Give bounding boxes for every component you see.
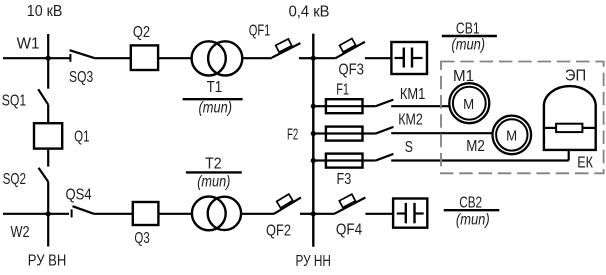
label CB1 fraction line (442, 35, 497, 37)
svg-text:(mun): (mun) (451, 37, 485, 54)
svg-text:W1: W1 (17, 35, 40, 52)
svg-text:T1: T1 (207, 79, 223, 96)
node bus F2 junction (311, 131, 316, 136)
wire SQ1 to Q1 (47, 105, 49, 123)
wire SQ3 to Q2 (95, 57, 131, 59)
svg-text:QS4: QS4 (66, 187, 92, 204)
circuit breaker QF2 (274, 197, 301, 213)
svg-text:QF1: QF1 (249, 22, 271, 39)
svg-text:F1: F1 (336, 81, 349, 98)
svg-text:Q2: Q2 (133, 24, 150, 41)
disconnector SQ1 blade (38, 89, 48, 105)
circuit breaker QF3 (313, 57, 335, 59)
wire T1 to QF1 (242, 57, 272, 59)
wire QF3 to capacitor (365, 57, 392, 59)
wire S to EK (391, 159, 569, 161)
wire W1 cable-in (3, 57, 48, 59)
svg-text:SQ2: SQ2 (3, 171, 26, 188)
svg-text:Q3: Q3 (134, 230, 149, 247)
breaker Q1 (34, 123, 62, 148)
heater EP enclosure (544, 86, 596, 150)
svg-text:ЭП: ЭП (565, 68, 586, 85)
fuse F1 (326, 99, 363, 113)
switch S blade (375, 154, 393, 161)
wire Q3 to T2 (158, 213, 192, 215)
wire QF2 to bus (300, 213, 313, 215)
svg-text:(mun): (mun) (197, 173, 230, 190)
label CB2 fraction line (444, 209, 500, 211)
disconnector SQ2 blade (39, 168, 49, 182)
svg-text:М: М (506, 127, 517, 144)
wire F1 to KM1 (363, 105, 376, 107)
node bus F3 junction (311, 158, 316, 163)
svg-text:QF2: QF2 (266, 223, 291, 240)
wire Q2 to T1 (158, 57, 192, 59)
node bus QF2 junction (311, 211, 316, 216)
node bus QF1 junction (311, 56, 316, 61)
svg-text:ЕК: ЕК (577, 155, 593, 172)
svg-text:Q1: Q1 (74, 128, 89, 145)
label T1 fraction line (183, 98, 243, 100)
capacitor bank CB1 box (391, 42, 427, 74)
wire F3 to S (363, 159, 376, 161)
wire SQ2 to W2 row and bus bottom (47, 182, 49, 247)
breaker Q3 (133, 202, 159, 225)
node W2 junction (46, 211, 51, 216)
svg-text:РУ НН: РУ НН (296, 253, 331, 270)
wire KM2 to M2 (391, 132, 493, 134)
svg-text:М1: М1 (453, 68, 474, 85)
node W1 junction (46, 56, 51, 61)
wire bus to F2 (313, 132, 326, 134)
wire QS4 to Q3 (94, 213, 133, 215)
svg-text:F3: F3 (337, 171, 352, 188)
svg-text:F2: F2 (287, 127, 298, 144)
contactor KM2 blade (375, 127, 393, 134)
breaker Q2 (131, 45, 158, 70)
wire HV bus upper segment (47, 34, 49, 89)
wire bus to F3 (313, 159, 326, 161)
svg-text:SQ3: SQ3 (69, 69, 93, 86)
wire QF4 to capacitor (365, 213, 393, 215)
svg-text:0,4 кВ: 0,4 кВ (289, 3, 330, 20)
wire F2 to KM2 (363, 132, 376, 134)
node bus F1 junction (311, 104, 316, 109)
circuit breaker QF4 (313, 213, 334, 215)
contactor KM1 blade (375, 100, 393, 107)
fuse F2 (326, 127, 363, 141)
svg-text:T2: T2 (205, 155, 222, 172)
wire bus to F1 (313, 105, 326, 107)
svg-text:РУ ВН: РУ ВН (28, 253, 67, 270)
fuse F3 (326, 154, 363, 168)
disconnector QS4 (48, 213, 69, 215)
svg-text:М2: М2 (466, 138, 485, 155)
svg-text:(mun): (mun) (456, 211, 490, 228)
svg-text:W2: W2 (11, 224, 30, 241)
wire Q1 to SQ2 (47, 149, 49, 167)
circuit breaker QF1 (272, 43, 301, 58)
svg-text:10 кВ: 10 кВ (27, 3, 63, 20)
wire KM1 to M1 (391, 105, 449, 107)
svg-text:QF4: QF4 (336, 222, 362, 239)
label T2 fraction line (186, 171, 242, 173)
wire LV bus (312, 34, 314, 247)
motor M2 (493, 116, 532, 155)
capacitor bank CB2 box (393, 199, 427, 228)
svg-text:S: S (405, 139, 413, 156)
motor M1 (449, 83, 489, 123)
transformer T1 (192, 41, 226, 75)
svg-text:SQ1: SQ1 (2, 93, 27, 110)
svg-text:(mun): (mun) (199, 100, 233, 117)
svg-text:М: М (463, 96, 474, 113)
dashed enclosure consumers (441, 62, 604, 174)
heating element EK (544, 127, 556, 129)
svg-text:QF3: QF3 (338, 62, 364, 79)
wire W2 cable-in (3, 213, 48, 215)
svg-text:КМ1: КМ1 (400, 86, 425, 103)
transformer T2 (192, 197, 226, 231)
wire T2 to QF2 (241, 213, 274, 215)
svg-text:КМ2: КМ2 (398, 111, 423, 128)
disconnector SQ3 (48, 57, 70, 59)
wire QF1 to bus (299, 57, 313, 59)
